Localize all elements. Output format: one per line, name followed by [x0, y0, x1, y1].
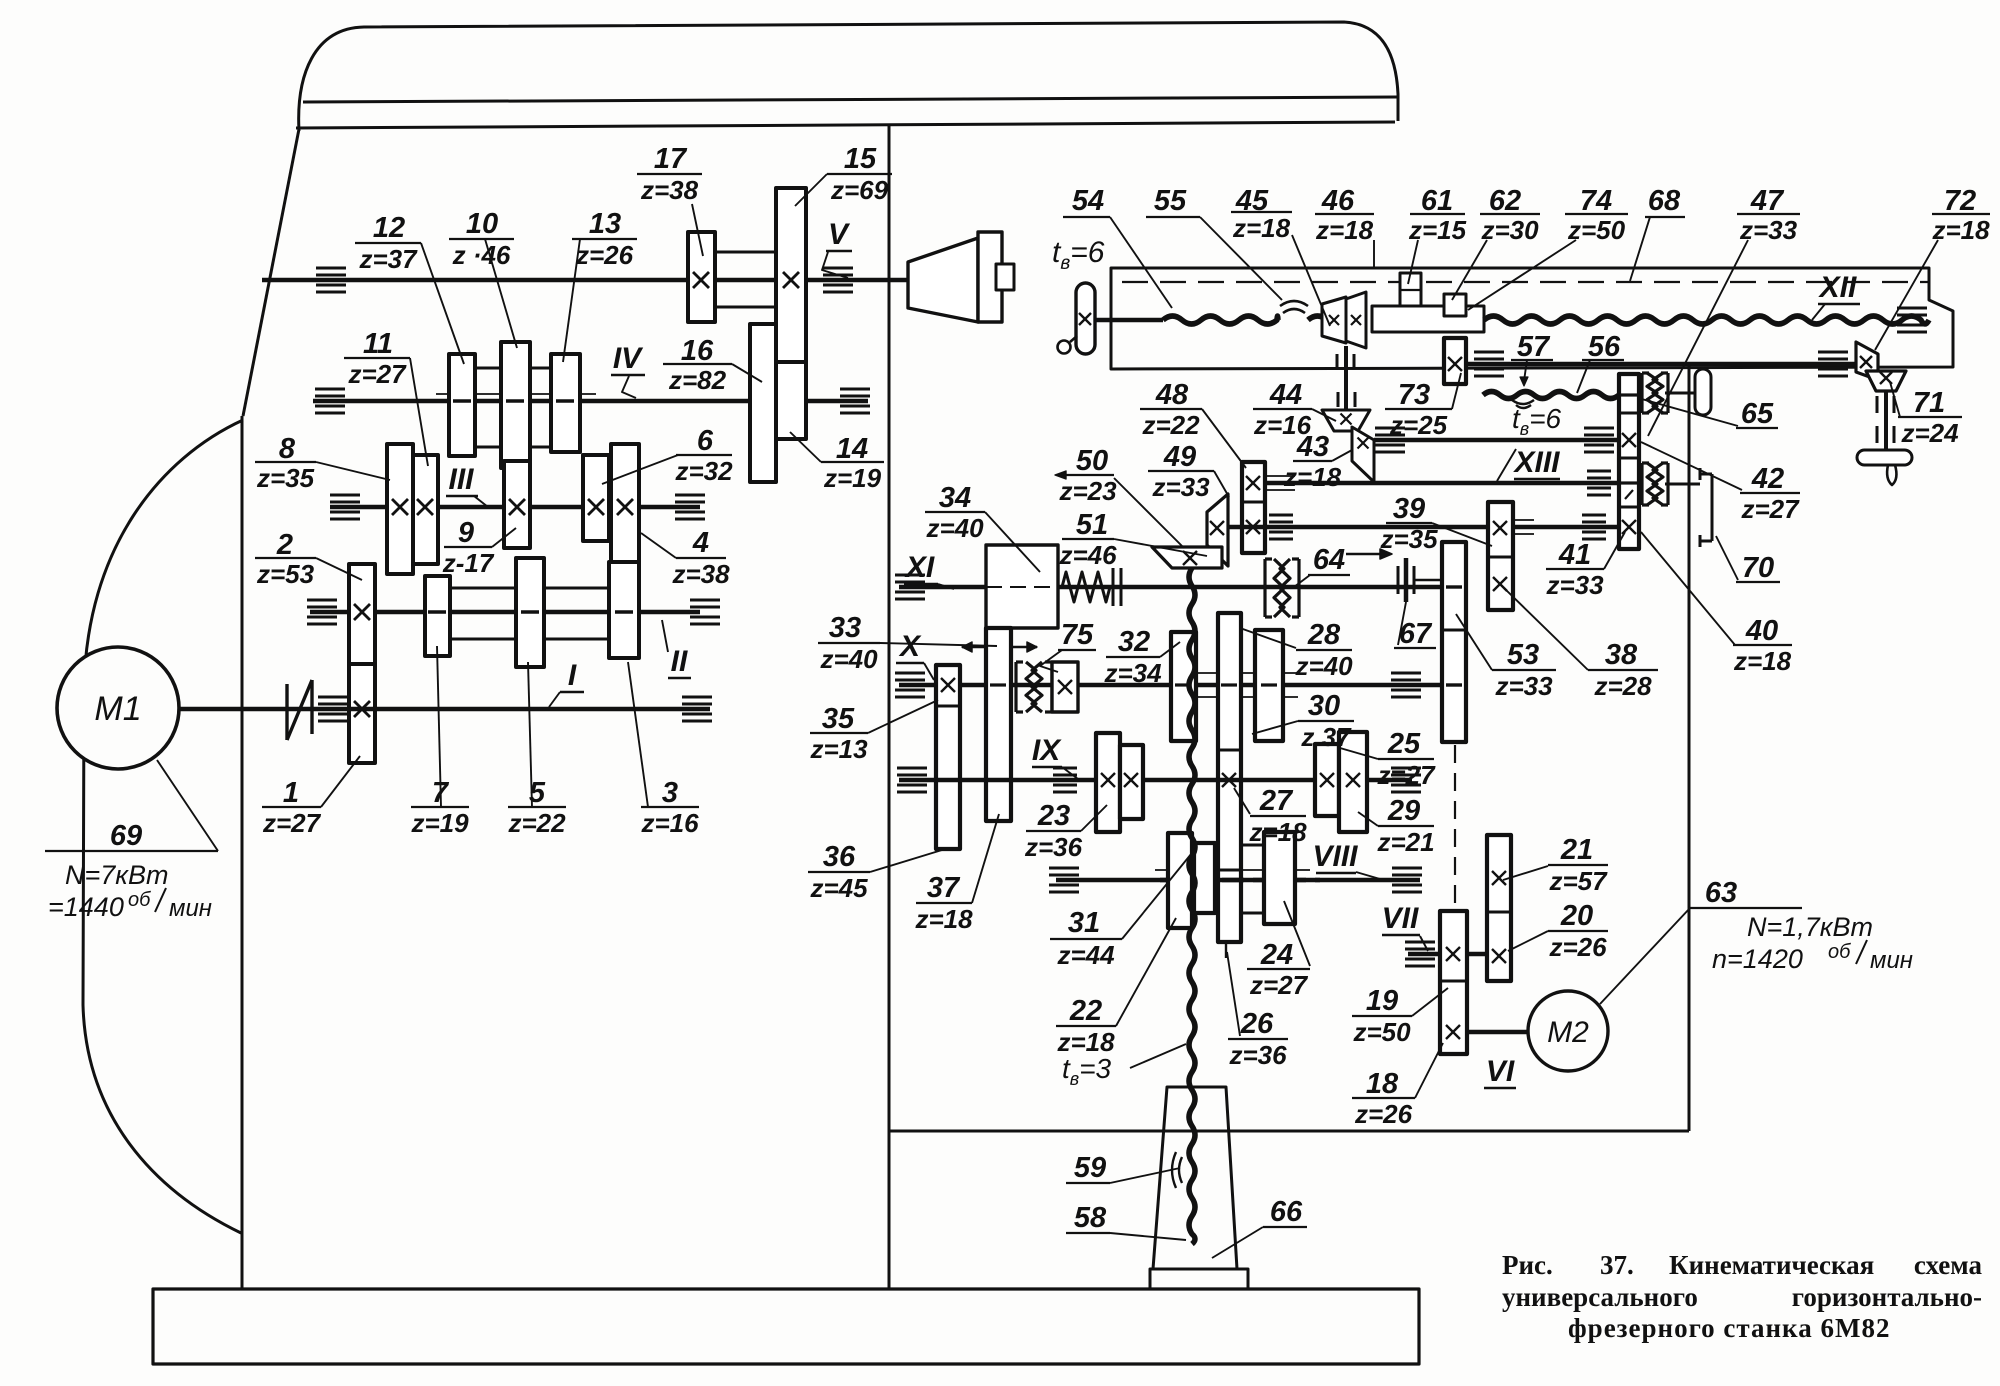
svg-text:М1: М1: [94, 690, 141, 728]
gear 19 z=50 and 18 z=26: [1440, 911, 1467, 1054]
svg-text:z=35: z=35: [256, 463, 315, 493]
bearing table screw right: [1897, 307, 1927, 310]
bearing 73-shaft left: [1474, 351, 1504, 354]
svg-text:М2: М2: [1547, 1016, 1589, 1049]
svg-text:n=1420: n=1420: [1712, 944, 1803, 974]
bearing shaft XIV left: [1269, 514, 1293, 517]
spindle cone: [908, 238, 978, 322]
svg-text:z=18: z=18: [1931, 215, 1990, 245]
hub bars to gear 24: [1241, 844, 1264, 847]
elevating pedestal 66: [1153, 1087, 1237, 1269]
svg-text:25: 25: [1387, 728, 1421, 760]
svg-text:z=40: z=40: [819, 644, 878, 674]
svg-text:tв=3: tв=3: [1062, 1053, 1112, 1089]
bevel gear 51 z=46: [1207, 494, 1228, 566]
gear 32 z=34: [1171, 632, 1196, 741]
svg-text:z ·46: z ·46: [452, 240, 511, 270]
table lead screw wavy middle: [1308, 316, 1331, 324]
svg-text:z=36: z=36: [1228, 1040, 1287, 1070]
svg-text:IV: IV: [613, 342, 644, 375]
table lead screw wavy right: [1484, 316, 1929, 324]
shaft IV: [313, 399, 868, 404]
bearing shaft II left: [307, 599, 337, 602]
svg-text:II: II: [671, 645, 688, 678]
hub bars of block 7-5-3: [450, 587, 516, 590]
svg-text:z=18: z=18: [914, 904, 973, 934]
gear 6 z=32: [583, 455, 609, 541]
svg-text:67: 67: [1399, 618, 1433, 650]
gear 62 z=30: [1444, 294, 1466, 316]
svg-text:tв=6: tв=6: [1052, 236, 1105, 274]
svg-text:XI: XI: [904, 551, 935, 584]
svg-text:z=40: z=40: [1294, 651, 1353, 681]
svg-text:8: 8: [279, 433, 296, 465]
jaw clutch upper right: [1640, 373, 1643, 413]
svg-text:72: 72: [1944, 185, 1976, 217]
double arrow under box 34: [962, 646, 1037, 648]
bearing shaft I left: [318, 696, 348, 699]
worm wheel 65 mark: [1621, 393, 1637, 396]
svg-text:z=32: z=32: [674, 456, 733, 486]
bearing shaft IV right: [840, 388, 870, 391]
svg-text:z=18: z=18: [1283, 462, 1342, 492]
bearing shaft XIII right: [1587, 470, 1611, 473]
jaw clutch lower right: [1640, 463, 1643, 505]
gear 8 z=35: [387, 444, 413, 574]
svg-text:37: 37: [927, 872, 961, 904]
spline lines shaft XIII: [1265, 475, 1295, 477]
dashed line 52 to 21: [1454, 745, 1456, 908]
svg-text:59: 59: [1074, 1152, 1106, 1184]
shaft V: [262, 278, 910, 283]
svg-text:z=44: z=44: [1056, 940, 1115, 970]
handle 71 T-grip: [1857, 450, 1912, 465]
gear 4 z=38: [611, 444, 639, 574]
svg-text:55: 55: [1154, 185, 1187, 217]
svg-text:z=40: z=40: [925, 513, 984, 543]
svg-text:12: 12: [373, 212, 405, 244]
svg-text:9: 9: [458, 517, 474, 549]
svg-text:26: 26: [1240, 1008, 1274, 1040]
motor M2: [1528, 991, 1608, 1071]
svg-text:z=22: z=22: [1141, 410, 1200, 440]
shaft II: [310, 610, 700, 615]
svg-text:42: 42: [1751, 463, 1784, 495]
bevel gear 72 z=18: [1856, 342, 1878, 380]
bearing shaft XI left: [895, 574, 925, 577]
svg-text:z=18: z=18: [1248, 817, 1307, 847]
hub between gears 17 and 15: [715, 251, 776, 254]
vertical shaft 46-44: [1344, 346, 1348, 414]
svg-text:XIII: XIII: [1512, 446, 1560, 479]
svg-text:z=45: z=45: [809, 873, 868, 903]
rod to handle 42: [1665, 392, 1697, 395]
bevel gear 71 partner: [1866, 371, 1906, 391]
svg-text:21: 21: [1560, 834, 1593, 866]
bearing shaft IX left: [897, 767, 927, 770]
shaft III: [330, 505, 700, 510]
bearing shaft XIV right: [1582, 514, 1606, 517]
svg-text:13: 13: [589, 208, 621, 240]
svg-text:38: 38: [1605, 639, 1638, 671]
motor housing bulge outline: [83, 420, 243, 1233]
pitch lines at X cluster: [1175, 672, 1298, 674]
gear column 30-27-26: [1218, 613, 1241, 942]
svg-text:z=22: z=22: [507, 808, 566, 838]
svg-text:tв=6: tв=6: [1512, 403, 1562, 439]
svg-text:z=82: z=82: [668, 365, 727, 395]
svg-text:51: 51: [1076, 509, 1108, 541]
svg-text:57: 57: [1517, 331, 1551, 363]
bearing shaft III right: [675, 494, 705, 497]
spring on shaft XI: [1062, 572, 1110, 602]
shaft IX: [899, 778, 1412, 783]
bearing shaft IX right: [1391, 767, 1421, 770]
screw arcs 59: [1172, 1152, 1176, 1188]
svg-text:z=13: z=13: [809, 734, 868, 764]
gear 17 z=38: [688, 232, 715, 322]
svg-text:z=50: z=50: [1352, 1017, 1411, 1047]
svg-text:z=24: z=24: [1900, 418, 1959, 448]
gear 25 z=27: [1315, 744, 1339, 816]
bearing shaft IX mid: [1053, 767, 1077, 770]
jaw clutch 75: [1014, 662, 1017, 712]
svg-text:56: 56: [1588, 331, 1621, 363]
svg-text:z-17: z-17: [442, 548, 495, 578]
bearing shaft X left: [895, 672, 925, 675]
bearing shaft VIII left: [1049, 867, 1079, 870]
svg-text:XII: XII: [1818, 271, 1857, 304]
knee right vertical line: [1688, 362, 1691, 1131]
vertical worm shaft tB=3: [1189, 568, 1195, 1244]
svg-text:X: X: [898, 630, 922, 663]
svg-text:48: 48: [1155, 379, 1189, 411]
svg-text:18: 18: [1366, 1068, 1399, 1100]
svg-text:z=15: z=15: [1408, 215, 1467, 245]
svg-text:N=7кВт: N=7кВт: [65, 860, 169, 890]
svg-text:об: об: [128, 889, 151, 911]
svg-text:68: 68: [1648, 185, 1681, 217]
svg-text:10: 10: [466, 208, 498, 240]
bevel gear 44 z=16: [1322, 410, 1370, 431]
svg-text:z=36: z=36: [1024, 832, 1083, 862]
gear column 65-42-40: [1619, 374, 1639, 549]
svg-text:VI: VI: [1486, 1055, 1515, 1088]
motor M1: [57, 647, 179, 769]
table outline XII: [1111, 268, 1953, 369]
gear 7 z=19: [425, 576, 450, 656]
spring stop bars: [1112, 568, 1115, 606]
coupling on shaft I: [285, 684, 288, 740]
svg-text:z=27: z=27: [1249, 970, 1309, 1000]
svg-text:1: 1: [283, 777, 299, 809]
gear mark on XIII: [1621, 481, 1637, 484]
gear 39 z=35 and 38 z=28: [1488, 502, 1513, 610]
svg-text:32: 32: [1118, 626, 1150, 658]
svg-text:3: 3: [662, 777, 678, 809]
svg-text:z=69: z=69: [830, 175, 889, 205]
svg-text:z=19: z=19: [823, 463, 882, 493]
gear 21 z=57 and 20 z=26: [1487, 835, 1511, 981]
svg-text:z=27: z=27: [347, 359, 407, 389]
machine head outline: [299, 22, 1398, 131]
gear 53 z=33 and 52 z=67: [1442, 542, 1466, 742]
shaft from bevel 43: [1374, 438, 1619, 443]
svg-text:74: 74: [1580, 185, 1612, 217]
friction clutch 67: [1397, 566, 1400, 594]
arrow near 64: [1346, 553, 1386, 555]
svg-text:I: I: [568, 659, 577, 692]
gear 23 pair z=36: [1096, 733, 1120, 832]
gear 13 z=26: [551, 354, 580, 452]
spindle nose detail: [996, 264, 1014, 290]
svg-text:z=27: z=27: [1376, 760, 1436, 790]
bevel gear 45 z=18: [1322, 297, 1346, 343]
box 34 z=40: [986, 545, 1058, 628]
svg-text:64: 64: [1313, 544, 1345, 576]
svg-text:универсального: универсального: [1502, 1282, 1698, 1312]
svg-text:4: 4: [692, 527, 709, 559]
svg-text:15: 15: [844, 143, 877, 175]
svg-text:горизонтально-: горизонтально-: [1792, 1282, 1982, 1312]
worm 56 wavy: [1483, 392, 1619, 399]
nut arcs 55: [1280, 301, 1308, 306]
svg-text:31: 31: [1068, 907, 1100, 939]
svg-text:z=30: z=30: [1480, 215, 1539, 245]
svg-text:28: 28: [1307, 619, 1341, 651]
svg-text:z=33: z=33: [1494, 671, 1553, 701]
svg-text:20: 20: [1560, 900, 1593, 932]
bevel gear 46 z=18: [1346, 292, 1366, 348]
yoke 70: [1711, 474, 1714, 541]
svg-text:66: 66: [1270, 1196, 1303, 1228]
svg-text:53: 53: [1507, 639, 1539, 671]
svg-text:17: 17: [654, 143, 688, 175]
shaft VI: [1467, 1030, 1528, 1035]
svg-text:z=35: z=35: [1379, 524, 1438, 554]
svg-text:z=34: z=34: [1103, 658, 1162, 688]
svg-text:22: 22: [1069, 995, 1102, 1027]
svg-text:71: 71: [1913, 387, 1945, 419]
bearing 73-shaft right: [1818, 351, 1848, 354]
handwheel left of table: [1076, 283, 1095, 354]
svg-text:43: 43: [1296, 431, 1329, 463]
svg-text:мин: мин: [169, 895, 212, 922]
knee bottom line: [889, 1130, 1689, 1133]
rod to yoke 70: [1665, 483, 1700, 486]
svg-text:54: 54: [1072, 185, 1104, 217]
table lead screw 54 wavy left: [1163, 316, 1278, 324]
shaft XIV: [1229, 525, 1619, 530]
svg-text:=1440: =1440: [48, 892, 124, 922]
gear 29 z=21: [1339, 732, 1367, 832]
svg-text:44: 44: [1269, 379, 1302, 411]
svg-text:Рис.: Рис.: [1502, 1250, 1553, 1280]
gear 2 z=53: [349, 564, 375, 664]
knee left vertical line: [888, 126, 891, 1289]
svg-text:50: 50: [1076, 445, 1108, 477]
head band line lower: [296, 122, 1395, 128]
svg-text:III: III: [448, 463, 474, 496]
svg-text:30: 30: [1308, 690, 1340, 722]
gear 9 z=17: [504, 461, 530, 548]
gear 73 z=25 shaft: [1465, 362, 1858, 367]
svg-text:65: 65: [1741, 398, 1774, 430]
gear 5 z=22: [516, 558, 544, 667]
bearing shaft V right: [823, 267, 853, 270]
gear 40 z=18 mark: [1622, 520, 1636, 534]
svg-text:z=37: z=37: [358, 244, 418, 274]
gear 15 z=69: [776, 188, 806, 366]
bearing 43-shaft left: [1375, 427, 1405, 430]
svg-text:z 37: z 37: [1300, 722, 1352, 752]
gear 61 z=15: [1400, 273, 1421, 306]
worm 57 nut arcs: [1512, 400, 1534, 404]
svg-text:z=28: z=28: [1593, 671, 1652, 701]
svg-text:33: 33: [829, 612, 861, 644]
svg-text:мин: мин: [1870, 947, 1913, 974]
gear 35 z=13 and 36 z=45: [936, 665, 960, 849]
svg-text:V: V: [828, 218, 851, 251]
gear 28 z=40: [1255, 630, 1283, 741]
svg-text:фрезерного станка 6М82: фрезерного станка 6М82: [1568, 1313, 1890, 1343]
svg-text:24: 24: [1260, 939, 1293, 971]
svg-text:40: 40: [1745, 615, 1778, 647]
svg-text:VII: VII: [1382, 902, 1419, 935]
svg-text:z=53: z=53: [256, 559, 315, 589]
jaw clutch 64: [1263, 559, 1266, 617]
svg-text:z=21: z=21: [1376, 827, 1434, 857]
spline lines shaft XIV: [1513, 519, 1534, 521]
head band line upper: [303, 97, 1397, 102]
gear 1 z=27: [349, 664, 375, 763]
svg-text:63: 63: [1705, 877, 1737, 909]
column left slant edge: [243, 129, 299, 416]
bearing 43-shaft right: [1584, 427, 1614, 430]
svg-text:2: 2: [276, 529, 293, 561]
svg-text:47: 47: [1750, 185, 1785, 217]
svg-text:z=46: z=46: [1058, 540, 1117, 570]
bearing shaft IV left: [315, 388, 345, 391]
shaft XI: [899, 585, 1442, 590]
svg-text:z=57: z=57: [1548, 866, 1608, 896]
shaft XIII: [1253, 481, 1619, 486]
gear 31 z=44: [1194, 843, 1215, 913]
svg-text:41: 41: [1558, 539, 1591, 571]
gear 22 z=18: [1168, 833, 1192, 928]
svg-text:N=1,7кВт: N=1,7кВт: [1747, 912, 1873, 942]
gear 42 z=27 mark: [1622, 433, 1636, 447]
svg-text:z=19: z=19: [410, 808, 469, 838]
svg-text:Кинематическая: Кинематическая: [1669, 1250, 1874, 1280]
gear 14 z=19: [776, 362, 806, 439]
svg-text:23: 23: [1037, 800, 1070, 832]
svg-text:69: 69: [110, 820, 142, 852]
bearing shaft V left: [316, 267, 346, 270]
svg-text:73: 73: [1398, 379, 1430, 411]
svg-text:34: 34: [939, 482, 971, 514]
svg-text:z=27: z=27: [262, 808, 322, 838]
table screw shaft left stub: [1094, 318, 1163, 323]
svg-text:z=27: z=27: [1740, 494, 1800, 524]
svg-text:14: 14: [836, 433, 868, 465]
bearing shaft VII left: [1405, 941, 1435, 944]
svg-text:VIII: VIII: [1312, 840, 1358, 873]
shaft X: [899, 683, 1442, 688]
gear 12 z=37: [449, 354, 475, 456]
svg-text:58: 58: [1074, 1202, 1107, 1234]
svg-text:z=33: z=33: [1151, 472, 1210, 502]
bearing shaft X right: [1391, 672, 1421, 675]
gear 16 z=82: [750, 324, 776, 482]
svg-text:70: 70: [1742, 552, 1774, 584]
svg-text:z=16: z=16: [640, 808, 699, 838]
svg-text:IX: IX: [1032, 734, 1062, 767]
hub bars of block 12-10-13: [475, 367, 501, 370]
svg-text:z=33: z=33: [1545, 570, 1604, 600]
bearing shaft III left: [330, 494, 360, 497]
gear 11 z=27: [413, 455, 438, 564]
bearing shaft VIII right: [1392, 867, 1422, 870]
bearing shaft I right: [682, 696, 712, 699]
gear 24 z=27: [1264, 832, 1295, 924]
svg-text:61: 61: [1421, 185, 1453, 217]
nut block 61-62: [1372, 306, 1484, 332]
gear 37 z=18: [986, 628, 1011, 821]
svg-text:z=18: z=18: [1232, 213, 1291, 243]
shaft VIII: [1056, 878, 1420, 883]
svg-text:16: 16: [681, 335, 714, 367]
svg-text:46: 46: [1321, 185, 1355, 217]
bearing shaft II right: [690, 599, 720, 602]
shaft I: [179, 707, 710, 712]
svg-text:19: 19: [1366, 985, 1398, 1017]
pitch line shaft VIII: [1155, 869, 1310, 871]
svg-text:36: 36: [823, 841, 856, 873]
gear 73 z=25: [1444, 338, 1466, 384]
svg-text:z=38: z=38: [671, 559, 730, 589]
svg-text:75: 75: [1061, 619, 1094, 651]
gear 48 z=22 and 49 z=33: [1242, 462, 1265, 553]
spindle flange: [978, 232, 1002, 322]
table dashed centerline: [1122, 281, 1930, 283]
shaft II dash-dot: [375, 611, 645, 613]
shaft VII: [1408, 952, 1511, 957]
svg-text:11: 11: [363, 328, 393, 360]
gear 3 z=16: [609, 562, 639, 658]
machine base: [153, 1289, 1419, 1364]
bevel gear 50 z=23: [1152, 547, 1222, 568]
svg-text:z=26: z=26: [1354, 1099, 1413, 1129]
svg-text:27: 27: [1259, 785, 1294, 817]
svg-text:z=26: z=26: [1548, 932, 1607, 962]
svg-text:29: 29: [1387, 795, 1420, 827]
column left vertical edge: [241, 416, 244, 1290]
svg-text:6: 6: [697, 425, 714, 457]
gear 10 z=46: [501, 342, 530, 468]
svg-text:схема: схема: [1914, 1250, 1983, 1280]
pitch line shaft IV: [436, 393, 596, 395]
pedestal base plate: [1150, 1269, 1248, 1289]
svg-text:49: 49: [1163, 441, 1196, 473]
vertical shaft 71: [1884, 391, 1888, 450]
svg-text:об: об: [1828, 941, 1851, 963]
svg-text:62: 62: [1489, 185, 1521, 217]
svg-text:z=38: z=38: [640, 175, 699, 205]
svg-text:z=23: z=23: [1058, 476, 1117, 506]
handle 42 grip: [1695, 369, 1711, 415]
svg-text:39: 39: [1393, 493, 1425, 525]
